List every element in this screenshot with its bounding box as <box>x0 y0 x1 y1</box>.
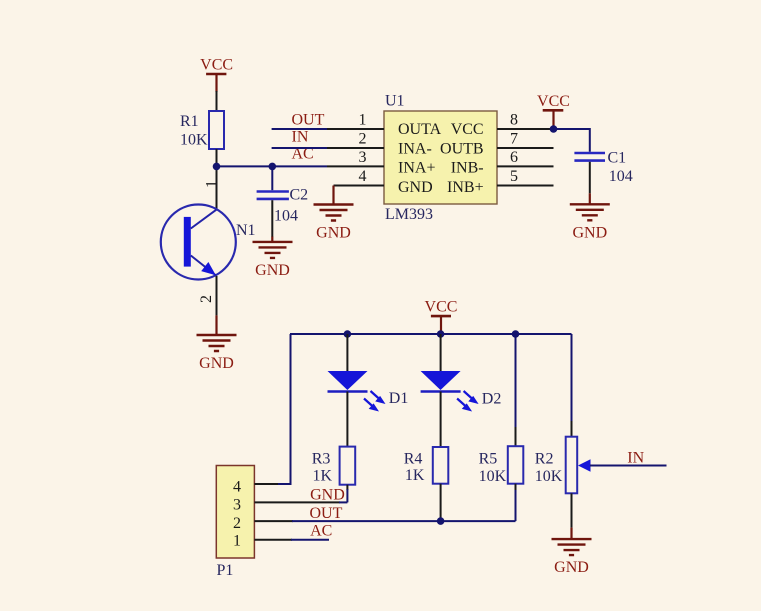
svg-text:AC: AC <box>310 523 332 540</box>
wire rail down to R2 <box>571 334 573 422</box>
svg-text:D2: D2 <box>482 391 502 408</box>
pin P1.1 wire (AC net) <box>254 539 292 541</box>
svg-text:2: 2 <box>359 131 367 148</box>
svg-text:C1: C1 <box>608 150 627 167</box>
wire R2 wiper to IN <box>590 465 667 467</box>
wire IN net <box>272 147 327 149</box>
wire R1 to collector node <box>216 149 218 210</box>
svg-text:LM393: LM393 <box>385 206 433 223</box>
wire AC net (node to U1 pin 3) <box>217 165 328 167</box>
wire rail to D2 anode <box>440 334 442 371</box>
svg-text:10K: 10K <box>479 468 507 485</box>
svg-text:OUTB: OUTB <box>440 140 484 157</box>
svg-text:VCC: VCC <box>425 299 458 316</box>
svg-text:2: 2 <box>233 515 241 532</box>
op-amp U1 (LM393 comparator) <box>384 93 497 223</box>
wire D1 cathode to R3 <box>346 392 348 447</box>
power VCC (right of U1) <box>537 93 570 129</box>
pin 6 <box>497 149 554 166</box>
ground (below C2) <box>271 237 273 242</box>
svg-text:104: 104 <box>274 208 298 225</box>
svg-text:U1: U1 <box>385 93 405 110</box>
node at R1 / AC wire <box>213 163 221 171</box>
svg-text:5: 5 <box>510 168 518 185</box>
wire rail to D1 anode <box>346 334 348 371</box>
ground (below R2) <box>570 528 572 540</box>
svg-text:GND: GND <box>398 179 433 196</box>
svg-text:IN: IN <box>627 449 644 466</box>
svg-text:VCC: VCC <box>200 57 233 74</box>
svg-text:1: 1 <box>233 533 241 550</box>
resistor R5 <box>479 446 524 485</box>
svg-text:104: 104 <box>609 168 633 185</box>
svg-text:IN: IN <box>292 129 309 146</box>
resistor R1 <box>180 111 224 149</box>
svg-text:OUT: OUT <box>292 112 325 129</box>
svg-text:4: 4 <box>233 479 241 496</box>
power VCC (bottom rail) <box>425 299 458 334</box>
wire OUT net <box>272 128 327 130</box>
ground (below C1) <box>589 193 591 204</box>
node rail/R5 <box>512 330 520 338</box>
svg-text:INA-: INA- <box>398 140 432 157</box>
pin 5 <box>497 168 554 186</box>
svg-text:R3: R3 <box>312 451 331 468</box>
wire VCC to R1 <box>216 91 218 111</box>
svg-text:1: 1 <box>203 180 220 188</box>
wire R2 to ground <box>571 493 573 527</box>
svg-text:GND: GND <box>310 486 345 503</box>
power VCC (top left) <box>200 57 233 93</box>
svg-text:INB+: INB+ <box>447 179 484 196</box>
wire rail corner to R2 top <box>571 421 573 437</box>
svg-text:INB-: INB- <box>451 160 484 177</box>
svg-text:VCC: VCC <box>537 93 570 110</box>
LED D1 <box>328 371 409 412</box>
svg-text:R4: R4 <box>404 451 423 468</box>
svg-text:6: 6 <box>510 149 518 166</box>
svg-text:N1: N1 <box>236 222 256 239</box>
node at pin 8 / VCC <box>550 125 558 133</box>
pin P1.3 wire (GND net) <box>254 501 340 503</box>
svg-text:R2: R2 <box>535 451 554 468</box>
pin P1.4 stub <box>254 483 278 485</box>
wire D2 cathode to R4 <box>440 392 442 448</box>
pin 7 <box>497 131 554 149</box>
node R4/OUT wire <box>437 517 445 525</box>
wire R3 to GND wire <box>346 485 348 490</box>
wire VCC rail <box>290 333 572 335</box>
potentiometer R2 <box>535 437 591 494</box>
svg-text:10K: 10K <box>535 468 563 485</box>
svg-text:OUTA: OUTA <box>398 121 442 138</box>
resistor R3 <box>312 447 356 485</box>
svg-text:4: 4 <box>359 168 367 185</box>
ground (U1 pin 4) <box>332 186 334 205</box>
svg-text:C2: C2 <box>290 186 309 203</box>
svg-text:VCC: VCC <box>451 121 484 138</box>
svg-text:1K: 1K <box>405 467 425 484</box>
wire C1 to ground <box>589 162 591 194</box>
wire rail down-left to P1 pin 4 <box>277 334 291 484</box>
svg-text:3: 3 <box>359 149 367 166</box>
LED D2 <box>421 371 502 412</box>
svg-text:P1: P1 <box>217 562 234 579</box>
ground (below transistor) <box>215 315 217 335</box>
pin 8 <box>497 112 554 130</box>
node rail/VCC/D2 <box>437 330 445 338</box>
wire rail to R5 <box>515 334 517 428</box>
svg-text:2: 2 <box>198 295 215 303</box>
wire R4 to OUT wire <box>440 484 442 521</box>
node rail/D1 <box>344 330 352 338</box>
svg-text:R1: R1 <box>180 113 199 130</box>
capacitor C2 <box>257 166 309 224</box>
svg-text:R5: R5 <box>479 451 498 468</box>
svg-text:D1: D1 <box>389 390 409 407</box>
capacitor C1 <box>574 150 632 185</box>
node at C2 tap <box>269 163 277 171</box>
pin 2 <box>327 131 384 149</box>
pin 1 <box>327 112 384 130</box>
svg-text:OUT: OUT <box>310 505 343 522</box>
svg-text:10K: 10K <box>180 131 208 148</box>
svg-text:7: 7 <box>510 131 518 148</box>
pin 4 <box>334 168 385 186</box>
svg-text:INA+: INA+ <box>398 160 435 177</box>
wire emitter to ground <box>216 276 218 316</box>
wire R5 to OUT wire <box>515 484 517 491</box>
connector P1 <box>216 466 254 580</box>
wire pin 8 to C1 <box>554 129 590 152</box>
svg-text:8: 8 <box>510 112 518 129</box>
svg-text:3: 3 <box>233 496 241 513</box>
pin 3 <box>327 149 384 166</box>
svg-text:1K: 1K <box>313 468 333 485</box>
transistor N1 <box>161 180 256 303</box>
resistor R4 <box>404 447 449 484</box>
svg-text:1: 1 <box>359 112 367 129</box>
wire C2 to ground <box>271 200 273 237</box>
pin P1.2 wire (OUT net) <box>254 520 293 522</box>
